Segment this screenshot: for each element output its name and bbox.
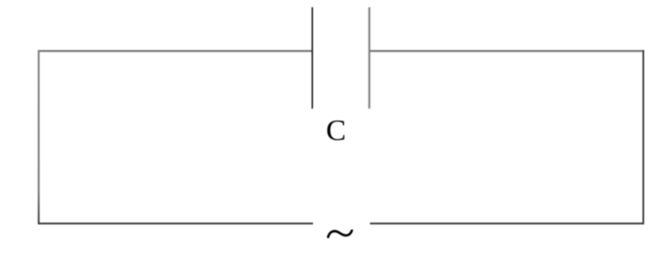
- AC source V1 (tilde symbol): [328, 231, 352, 237]
- wire top-right segment: [369, 50, 643, 52]
- wire bottom-left segment: [38, 223, 313, 225]
- wire top-left segment: [39, 50, 313, 52]
- svg-text:C: C: [326, 114, 346, 147]
- wire left side: [38, 50, 40, 224]
- wire bottom-right segment: [370, 223, 644, 225]
- capacitor C1 right plate: [368, 7, 370, 108]
- wire right side: [642, 50, 644, 224]
- capacitor C1 left plate: [311, 7, 313, 108]
